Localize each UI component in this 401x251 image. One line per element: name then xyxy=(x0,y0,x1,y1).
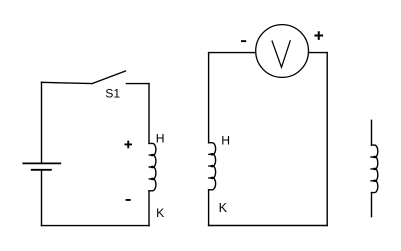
wire left-circuit left vertical upper (to battery) xyxy=(41,82,43,163)
polarity - (voltmeter left) xyxy=(241,40,246,42)
wire left-circuit right vertical upper xyxy=(148,84,150,144)
wire left-circuit top-right contact segment xyxy=(126,83,149,85)
voltmeter V1 circle xyxy=(256,25,309,78)
wire stand-alone coil top lead xyxy=(371,120,373,145)
battery short plate (-) xyxy=(32,169,51,171)
polarity + (left coil top) xyxy=(125,141,133,149)
inductor L2 coil (right circuit, labels H/K) xyxy=(208,143,215,190)
inductor L3 coil (stand-alone) xyxy=(370,145,377,193)
svg-text:K: K xyxy=(156,206,164,220)
wire stand-alone coil bottom lead xyxy=(371,193,373,217)
svg-text:H: H xyxy=(156,131,165,145)
wire left-circuit top-left horizontal xyxy=(42,82,93,83)
switch S1 blade xyxy=(92,71,126,84)
polarity + (voltmeter right) xyxy=(314,31,323,40)
wire right-circuit top-right horizontal xyxy=(309,52,328,54)
svg-text:H: H xyxy=(221,134,230,148)
wire left-circuit right vertical lower xyxy=(148,191,150,226)
polarity - (left coil bottom) xyxy=(126,199,131,201)
inductor L1 coil (left circuit, labels H/K) xyxy=(149,143,156,190)
wire right-circuit top-left horizontal xyxy=(209,52,256,54)
voltmeter V1 letter V xyxy=(272,41,290,68)
wire right-circuit bottom horizontal xyxy=(209,225,328,227)
wire right-circuit right vertical xyxy=(326,53,328,226)
battery long plate (+) xyxy=(23,162,60,164)
svg-text:S1: S1 xyxy=(105,87,120,101)
wire right-circuit left vertical upper xyxy=(208,53,210,143)
wire left-circuit bottom horizontal xyxy=(42,225,150,227)
svg-text:K: K xyxy=(219,201,228,215)
wire left-circuit left vertical lower (battery to bottom) xyxy=(41,170,43,226)
wire right-circuit left vertical lower xyxy=(208,190,210,226)
